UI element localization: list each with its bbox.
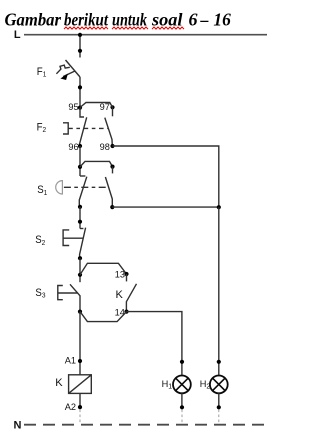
svg-text:S3: S3 — [35, 287, 45, 299]
terminal 96 dot — [78, 144, 82, 148]
svg-text:H1: H1 — [162, 379, 173, 391]
junction dot H2 bottom — [217, 405, 221, 409]
wire H2 to N (faint dashed) — [218, 410, 220, 425]
junction dot on H2 branch — [217, 205, 221, 209]
terminal 98 dot — [110, 144, 114, 148]
svg-text:Gambar: Gambar — [5, 10, 62, 30]
coil K box — [69, 375, 92, 394]
wire H1 below lamp — [181, 393, 183, 407]
relay F2 mechanical link (dashed) — [68, 127, 108, 129]
wire S1 to S2 — [79, 207, 81, 229]
terminal 95 dot — [78, 106, 82, 110]
switch S1 mechanical link (dashed) — [64, 186, 109, 188]
svg-text:S2: S2 — [35, 235, 45, 247]
junction dot on L line — [78, 33, 82, 37]
junction dot H2 top — [217, 360, 221, 364]
switch S3 actuator bracket — [58, 286, 63, 300]
wire H2 below lamp — [218, 393, 220, 407]
contact F2 NC 95-96 — [80, 108, 84, 117]
junction dot H1 bottom — [180, 405, 184, 409]
wire jumper S3 bottom to 14 — [80, 312, 127, 322]
junction dot S3 top — [78, 273, 82, 277]
spellcheck squiggle under soal — [152, 27, 184, 29]
junction dot S3 bottom — [78, 310, 82, 314]
wire main rail: L down to F1 — [79, 35, 81, 58]
lamp H2 circle — [210, 376, 228, 394]
terminal 14 dot — [124, 310, 128, 314]
wire H2 vertical — [218, 207, 220, 375]
wire H1 to N (faint dashed) — [181, 410, 183, 425]
wire S1 NO bottom to H2 branch — [112, 206, 219, 208]
svg-text:N: N — [14, 419, 22, 431]
junction dot S1 top — [78, 165, 82, 169]
contact S1 NC — [80, 175, 85, 177]
junction dot S2 bottom — [78, 256, 82, 260]
wire N line (dashed) — [24, 424, 266, 426]
switch S2 actuator link — [63, 237, 83, 239]
svg-text:–: – — [200, 10, 209, 30]
wire jumper S1 NC top to S1 NO top — [80, 161, 113, 167]
svg-text:F1: F1 — [37, 66, 47, 78]
junction dot below L — [78, 49, 82, 53]
wire 98 to H2 branch — [113, 146, 219, 207]
svg-text:S1: S1 — [37, 185, 47, 197]
svg-text:A1: A1 — [65, 355, 76, 365]
wire L line — [24, 34, 267, 36]
switch S3 actuator link — [58, 292, 78, 294]
svg-text:L: L — [14, 29, 21, 41]
svg-text:13: 13 — [115, 270, 125, 280]
relay F2 trip bracket — [63, 123, 68, 134]
junction dot below F1 — [78, 85, 82, 89]
junction dot H1 top — [180, 360, 184, 364]
contact S3 NO — [70, 284, 80, 311]
wire 14 to H1 branch — [127, 312, 182, 376]
wire 96 down to S1 — [79, 146, 81, 176]
junction dot S1 NO top — [110, 165, 114, 169]
svg-text:A2: A2 — [65, 402, 76, 412]
wire A2 to N (faint dashed) — [79, 410, 81, 425]
wire F1 to 95 — [79, 77, 81, 108]
contact K NO 13-14 — [126, 274, 128, 281]
wire S3 to coil A1 — [79, 312, 81, 375]
junction dot S1 NC bottom — [78, 205, 82, 209]
svg-text:16: 16 — [213, 10, 230, 30]
svg-text:97: 97 — [100, 102, 110, 112]
svg-text:98: 98 — [100, 142, 110, 152]
terminal A2 dot — [78, 405, 82, 409]
svg-text:H2: H2 — [200, 379, 211, 391]
svg-text:95: 95 — [68, 102, 78, 112]
svg-text:K: K — [116, 289, 124, 301]
switch S1 actuator (half circle) — [56, 181, 63, 194]
junction dot S2 top — [78, 220, 82, 224]
svg-text:6: 6 — [189, 10, 198, 30]
wire S2 to S3 — [79, 258, 81, 282]
contact F2 NO 97-98 — [112, 107, 114, 116]
contact S2 NC — [80, 228, 83, 230]
lamp H1 circle — [173, 376, 191, 394]
breaker F1 blade — [66, 60, 81, 77]
wire jumper 95 to 97 — [80, 103, 113, 108]
breaker F1 trip arrowhead — [60, 74, 68, 80]
switch S2 actuator bracket — [63, 230, 69, 246]
junction dot S1 NO bottom — [110, 205, 114, 209]
spellcheck squiggle under untuk — [112, 27, 148, 29]
spellcheck squiggle under berikut — [64, 27, 108, 29]
svg-text:96: 96 — [68, 142, 78, 152]
wire coil to A2 — [79, 393, 81, 407]
terminal 97 dot — [110, 105, 114, 109]
svg-text:K: K — [55, 377, 63, 389]
wire jumper S3 top to contact 13 — [80, 263, 127, 275]
breaker F1 trip arrow shaft — [63, 71, 75, 77]
breaker F1 thermal zigzag — [56, 65, 69, 74]
svg-text:F2: F2 — [37, 122, 47, 134]
lamp H2 cross — [213, 378, 225, 390]
coil K diagonal — [69, 375, 92, 394]
lamp H1 cross — [176, 378, 188, 390]
terminal 13 dot — [124, 272, 128, 276]
terminal A1 dot — [78, 359, 82, 363]
contact S1 NO — [112, 167, 114, 174]
title text — [5, 10, 231, 30]
